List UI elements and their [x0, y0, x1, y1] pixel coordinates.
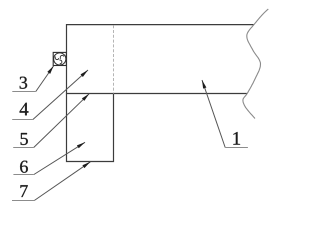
- underline 1: [225, 147, 248, 149]
- leader line for label 3: [36, 66, 54, 92]
- arrowhead 7: [82, 162, 90, 168]
- beam outline (part 1, broken at right): [67, 25, 254, 94]
- leader line for label 7: [34, 162, 90, 201]
- underline 5: [13, 147, 34, 149]
- break line (wavy right edge): [243, 9, 268, 119]
- underline 6: [13, 174, 34, 176]
- underline 3: [12, 91, 36, 93]
- label 3: [20, 77, 27, 89]
- fan symbol blades: [54, 53, 67, 66]
- leader line for label 4: [33, 70, 88, 120]
- leader line for label 1: [202, 80, 225, 148]
- arrowhead 4: [81, 70, 88, 77]
- label 1: [233, 132, 240, 145]
- underline 4: [12, 119, 33, 121]
- arrowhead 6: [77, 142, 85, 148]
- label 4: [20, 103, 29, 116]
- underline 7: [12, 200, 34, 202]
- label 7: [20, 185, 27, 197]
- arrowhead 3: [47, 66, 53, 74]
- leader line for label 5: [34, 94, 89, 148]
- leader line for label 6: [34, 142, 85, 174]
- hidden line (dashed, bolt axis): [113, 25, 115, 93]
- fan symbol square: [53, 52, 66, 65]
- arrowhead 5: [82, 94, 89, 101]
- pad rectangle (parts 6/7): [67, 94, 114, 162]
- fan symbol circle: [54, 53, 66, 65]
- label 6: [20, 161, 28, 173]
- arrowhead 1: [202, 80, 206, 89]
- label 5: [21, 133, 28, 145]
